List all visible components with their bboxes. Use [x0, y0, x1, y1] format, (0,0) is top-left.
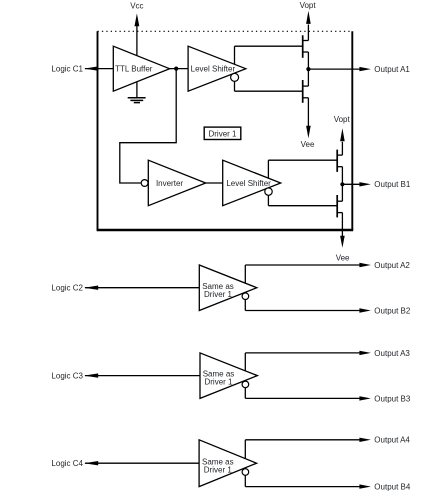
node output A1 junction [306, 67, 310, 71]
svg-text:Output A4: Output A4 [374, 436, 410, 445]
label Driver 1 [208, 129, 237, 138]
svg-text:Output A3: Output A3 [374, 349, 410, 358]
label Vcc [130, 2, 143, 11]
svg-text:Vopt: Vopt [334, 115, 351, 124]
junction node after TTL buffer [174, 67, 178, 71]
label Same as Driver 1 (driver 4) [202, 457, 234, 474]
wire output A4 [245, 438, 371, 442]
driver 3 block triangle [200, 353, 257, 399]
wire Logic C4 input [84, 461, 199, 465]
svg-text:Vopt: Vopt [300, 1, 317, 10]
wire driver 2 riser vertical [244, 265, 246, 311]
svg-text:Logic C2: Logic C2 [51, 284, 83, 293]
svg-text:Output B4: Output B4 [374, 483, 411, 492]
svg-text:Level Shifter: Level Shifter [191, 64, 236, 73]
svg-text:Vcc: Vcc [130, 2, 143, 11]
svg-text:Output B1: Output B1 [374, 180, 411, 189]
wire output B4 [245, 484, 371, 488]
transistor Q4 lower output B1 [337, 184, 342, 237]
svg-text:Vee: Vee [336, 253, 350, 262]
wire U2 output riser vertical [234, 46, 236, 91]
label box Driver 1 [204, 127, 241, 139]
wire feedback from junction to inverter [120, 69, 176, 183]
wire gate Q1 horizontal [235, 45, 303, 47]
wire gate Q4 horizontal [268, 205, 337, 207]
node output B1 junction [340, 182, 344, 186]
label Vee A1 [301, 140, 315, 149]
label Logic C3 [51, 372, 83, 381]
wire Logic C1 input [84, 66, 113, 70]
label Logic C2 [51, 284, 83, 293]
transistor Q2 lower output A1 [303, 69, 309, 127]
svg-text:Logic C3: Logic C3 [51, 372, 83, 381]
wire output A2 [245, 263, 371, 267]
supply Vee arrow B1 [340, 236, 345, 248]
label Vopt A1 [300, 1, 317, 10]
svg-text:Inverter: Inverter [156, 179, 183, 188]
svg-text:Vee: Vee [301, 140, 315, 149]
inverting output bubble U4 [265, 188, 272, 195]
wire inverter output to level shifter U4 [206, 182, 223, 184]
level shifter U4 [223, 160, 281, 206]
svg-text:Output A2: Output A2 [374, 261, 410, 270]
ground [128, 98, 146, 103]
inverting bubble driver 2 [242, 293, 249, 300]
supply Vopt arrow B1 [340, 128, 345, 141]
wire output B3 [245, 396, 371, 400]
wire U4 output riser vertical [267, 160, 269, 206]
wire gate Q3 horizontal [268, 159, 337, 161]
svg-text:TTL Buffer: TTL Buffer [115, 64, 153, 73]
label Output B4 [374, 483, 411, 492]
label Vopt B1 [334, 115, 351, 124]
inverter U3 [148, 160, 205, 206]
label Vee B1 [336, 253, 350, 262]
buffer U1 TTL Buffer [113, 46, 169, 91]
label Same as Driver 1 (driver 3) [203, 370, 235, 387]
wire output A1 [308, 67, 371, 71]
driver 1 enclosure box dotted top [98, 30, 353, 32]
supply Vopt arrow A1 [306, 11, 311, 24]
label TTL Buffer [115, 64, 153, 73]
svg-text:Logic C4: Logic C4 [51, 459, 83, 468]
wire output B2 [245, 308, 371, 312]
inverter U3 input bubble [141, 180, 148, 187]
driver 1 enclosure box right edge [351, 31, 353, 230]
transistor Q3 upper output B1 [337, 142, 342, 185]
label Level Shifter U2 [191, 64, 236, 73]
label Logic C1 [51, 64, 83, 73]
label Output B3 [374, 394, 411, 403]
wire gate Q2 horizontal [235, 90, 303, 92]
driver 2 block triangle [199, 265, 256, 311]
label Same as Driver 1 (driver 2) [202, 282, 234, 299]
driver 1 enclosure box left edge [97, 31, 99, 230]
wire output B1 [342, 182, 371, 186]
svg-text:Driver 1: Driver 1 [208, 129, 237, 138]
label Output A1 [374, 65, 410, 74]
svg-text:Driver 1: Driver 1 [204, 290, 233, 299]
driver 1 enclosure box bottom edge [97, 229, 354, 231]
driver 4 block triangle [199, 440, 257, 487]
svg-text:Output B3: Output B3 [374, 394, 411, 403]
svg-text:Output A1: Output A1 [374, 65, 410, 74]
level shifter U2 [188, 46, 246, 91]
label Output A4 [374, 436, 410, 445]
wire driver 4 riser vertical [244, 440, 246, 487]
label Inverter [156, 179, 183, 188]
supply Vcc line through buffer [135, 13, 140, 97]
svg-text:Output B2: Output B2 [374, 306, 411, 315]
wire driver 3 riser vertical [244, 353, 246, 399]
label Output A3 [374, 349, 410, 358]
wire Logic C3 input [84, 373, 200, 377]
svg-text:Driver 1: Driver 1 [204, 465, 233, 474]
inverting bubble driver 3 [242, 381, 249, 388]
transistor Q1 upper output A1 [303, 25, 309, 70]
wire buffer output to level shifter [170, 68, 189, 70]
label Logic C4 [51, 459, 83, 468]
label Output B2 [374, 306, 411, 315]
label Output A2 [374, 261, 410, 270]
wire output A3 [245, 351, 371, 355]
svg-text:Level Shifter: Level Shifter [226, 179, 271, 188]
inverting output bubble U2 [231, 73, 239, 81]
supply Vee arrow A1 [306, 126, 311, 139]
svg-text:Logic C1: Logic C1 [51, 64, 83, 73]
label Level Shifter U4 [226, 179, 271, 188]
wire Logic C2 input [84, 286, 199, 290]
label Output B1 [374, 180, 411, 189]
svg-text:Driver 1: Driver 1 [204, 378, 233, 387]
inverting bubble driver 4 [242, 469, 249, 476]
